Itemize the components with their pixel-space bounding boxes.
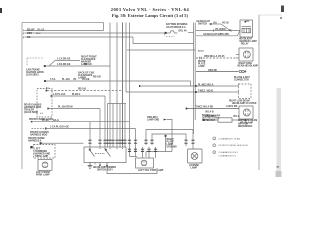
left park lamp symbol: [42, 162, 48, 168]
svg-text:RD-GN: RD-GN: [93, 77, 101, 79]
right margin shading: [277, 88, 282, 177]
connector on wire x113: [111, 140, 114, 143]
page edge artifact top-left: [0, 8, 2, 13]
ground run wire: [107, 166, 157, 174]
svg-text:LAMP: LAMP: [81, 63, 88, 66]
svg-text:GROUND: GROUND: [167, 146, 178, 148]
svg-text:NBR-MC2: NBR-MC2: [205, 116, 216, 118]
connector row2 x142.5: [141, 149, 144, 151]
off-page arrow W3: [23, 36, 25, 37]
svg-text:PL-10A: PL-10A: [62, 78, 70, 81]
wire y86 left tick: [139, 85, 140, 87]
tail lamp bottom run: [146, 151, 172, 153]
relay contact block: [242, 28, 251, 33]
svg-text:DA-G: DA-G: [53, 119, 59, 122]
svg-text:OBS: OBS: [27, 33, 32, 35]
verticals continue below connector row: [89, 145, 91, 147]
relay inner line: [242, 25, 252, 27]
svg-text:HEADLIGHT SW: HEADLIGHT SW: [204, 33, 223, 36]
svg-text:NOTES REF: NOTES REF: [202, 120, 216, 122]
pin tick b: [230, 29, 232, 31]
license lamp box: [188, 149, 203, 163]
svg-text:T-MC2: T-MC2: [198, 90, 206, 92]
svg-text:2003 Volvo VNL - Series - VNL-: 2003 Volvo VNL - Series - VNL-64: [111, 7, 190, 12]
svg-text:VO: VO: [73, 79, 77, 81]
DRL module wire hump: [167, 31, 178, 33]
wire y121.7: [34, 121, 130, 123]
svg-text:SWITCH: SWITCH: [198, 23, 207, 25]
left park lamp box: [38, 160, 52, 171]
tail lamp feed arrow wire: [167, 120, 173, 152]
short verticals second row: [143, 147, 156, 158]
left dashed connector box: [34, 145, 56, 159]
svg-text:PL-10A RD-W: PL-10A RD-W: [58, 105, 74, 108]
svg-text:RELAY: RELAY: [241, 42, 249, 45]
lamp1 entry stub: [236, 54, 239, 56]
svg-text:GE: GE: [27, 37, 31, 39]
relay box U1: [240, 20, 253, 37]
svg-text:Fig. 58: Exterior Lamps Circui: Fig. 58: Exterior Lamps Circuit (3 of 5): [112, 13, 189, 18]
connector on wire x120: [118, 140, 121, 143]
wire y91.8 terminal: [195, 91, 197, 93]
legend circle 3: [213, 151, 216, 154]
frame right border: [258, 15, 260, 170]
trailer dashed connector box: [37, 89, 52, 118]
off-page arrow W2: [23, 32, 25, 33]
dashed wire to lamp1: [196, 57, 236, 59]
corner x135.5 down: [135, 129, 137, 157]
wire W1: [25, 30, 104, 32]
DRL module terminal: [165, 32, 167, 34]
corner x100 down: [99, 109, 101, 146]
svg-text:T-MC2 VIO A RD: T-MC2 VIO A RD: [196, 106, 214, 109]
svg-text:REFERENCE: REFERENCE: [238, 126, 253, 128]
connector on wire x135.5: [134, 140, 137, 143]
svg-text:DETROIT DIESEL SER 60-84: DETROIT DIESEL SER 60-84: [219, 145, 249, 147]
connector on wire x90: [88, 140, 91, 143]
frame top right stub: [259, 14, 282, 16]
wire into dimmer area y143.2: [41, 142, 84, 144]
wire W3 drop: [132, 37, 134, 44]
page edge artifact top-right: [281, 6, 284, 13]
dashed wire y90.5: [47, 90, 123, 92]
svg-text:VIO-A: VIO-A: [207, 83, 214, 86]
legend: [213, 137, 216, 154]
dashed wire start mark: [46, 90, 48, 92]
nested corner wire y134: [152, 134, 186, 145]
connector on wire x146: [144, 140, 147, 143]
LT lamp symbol: [141, 160, 147, 166]
svg-text:8: 8: [23, 34, 24, 36]
parallel wire y86: [140, 85, 191, 87]
connector on wire x107.5: [106, 140, 109, 143]
svg-text:1: 1: [214, 138, 215, 140]
svg-text:CLEARANCE L PLAN: CLEARANCE L PLAN: [219, 137, 241, 140]
legend circle 1: [213, 137, 216, 140]
wire y108.5 to lamp3: [187, 108, 239, 110]
svg-text:VO-35B: VO-35B: [221, 34, 230, 36]
svg-text:W-GN 2: W-GN 2: [72, 94, 81, 96]
lamp box 3 left low beam: [239, 106, 253, 119]
left dashed partial box: [27, 34, 175, 66]
connector on wire x100: [98, 140, 101, 143]
connector on wire x125: [123, 140, 126, 143]
corner x105 down: [104, 96, 106, 145]
long wire y81 cab clearance: [45, 80, 191, 82]
svg-text:LAMP: LAMP: [198, 65, 205, 68]
pin dot below: [95, 163, 107, 166]
svg-text:(CHAS SIDE): (CHAS SIDE): [24, 111, 38, 114]
relay top terminal: [244, 21, 246, 23]
svg-text:1-CA DR-GE: 1-CA DR-GE: [57, 58, 71, 61]
connector row2 x149: [147, 149, 150, 151]
svg-text:HARNESS A: HARNESS A: [28, 140, 42, 143]
vertical trunk x110: [109, 23, 111, 146]
svg-text:DAYTIME RUNNING: DAYTIME RUNNING: [166, 23, 188, 26]
ground below dimmer box: [88, 163, 93, 169]
svg-text:BEAM HEADLAMP: BEAM HEADLAMP: [238, 64, 259, 67]
svg-text:(CAB SIDE): (CAB SIDE): [26, 73, 39, 76]
wire y128.5: [46, 128, 136, 130]
bottom-right tiny mark: [277, 166, 280, 168]
svg-text:T-CA: T-CA: [50, 78, 56, 81]
jog wire y103.5: [108, 103, 127, 105]
marker lamp wire y60.5: [55, 60, 80, 62]
license lamp drop: [192, 141, 194, 149]
dimmer switch box: [84, 147, 126, 163]
svg-text:VIO A-B: VIO A-B: [205, 110, 214, 113]
svg-text:1-R PL-10A: 1-R PL-10A: [53, 93, 66, 96]
switch riser diagonal: [238, 31, 241, 36]
headlight switch feed wire: [211, 23, 221, 25]
dashed box terminal: [30, 146, 32, 148]
y128.5 junction tick: [45, 127, 46, 129]
junction dot: [165, 135, 167, 137]
pin dots in dimmer box: [89, 148, 123, 149]
lamp symbol 1: [243, 51, 250, 58]
riser diagonal: [49, 61, 55, 67]
lamp symbol 3: [243, 109, 250, 116]
junction drop x165.5: [165, 137, 167, 152]
svg-text:PL-8A: PL-8A: [42, 119, 49, 122]
wire y120 start dot: [203, 119, 205, 121]
DRL module dashed outline: [165, 34, 175, 37]
wire y108.5 left: [48, 108, 100, 110]
right margin blob bottom: [276, 171, 282, 177]
svg-text:CLEARANCE KIT: CLEARANCE KIT: [219, 155, 237, 158]
svg-text:LEFT TAIL STOP LAMP: LEFT TAIL STOP LAMP: [138, 169, 164, 172]
switch contact A: [90, 151, 95, 157]
svg-text:OBS MC: OBS MC: [208, 70, 218, 72]
wire y121.7 arrow: [31, 121, 34, 123]
vertical x120: [119, 104, 121, 146]
connector on wire x129.5: [128, 140, 131, 143]
dark terminals and arrows: [23, 21, 249, 149]
pin tick a: [213, 29, 215, 31]
wire y85.8 right label tick: [195, 85, 197, 87]
wire y85.8 terminal: [44, 80, 46, 82]
svg-text:VIO-A: VIO-A: [233, 115, 240, 118]
wire y86 to right lamp: [191, 85, 240, 87]
svg-text:9: 9: [23, 38, 24, 40]
connector row2 x129.5: [128, 149, 131, 151]
off-page arrow W1: [23, 30, 25, 31]
svg-text:VO-GE: VO-GE: [82, 79, 90, 81]
svg-text:RD-WT: RD-WT: [27, 30, 35, 32]
svg-text:CLEARANCE DIS 5: CLEARANCE DIS 5: [219, 151, 239, 154]
wire y96 tick: [51, 95, 52, 97]
svg-text:VO: VO: [223, 29, 227, 31]
connector on wire x105: [103, 140, 106, 143]
jog from top line to wire W1: [103, 23, 105, 31]
frame top line: [22, 22, 104, 24]
vertical trunk x129.5: [129, 23, 131, 157]
svg-text:CONNECTOR: CONNECTOR: [234, 80, 249, 82]
wire y96: [51, 95, 105, 97]
svg-text:VIO-B: VIO-B: [207, 90, 214, 92]
svg-text:2: 2: [214, 145, 215, 147]
wire y120 right with connector box: [204, 119, 247, 121]
svg-text:PL-2A: PL-2A: [38, 29, 45, 32]
switch wire y30.5: [196, 30, 240, 32]
svg-text:TURN LAMP: TURN LAMP: [35, 155, 49, 158]
svg-text:OBS MCA-A VO-35: OBS MCA-A VO-35: [204, 55, 225, 58]
connector on wire x110: [108, 140, 111, 143]
connector on wire x186: [184, 140, 187, 143]
vertical x125: [124, 104, 126, 146]
license lamp symbol: [191, 153, 198, 160]
frame left border: [21, 23, 23, 170]
connector on wire x122.5: [121, 140, 124, 143]
wire y108.5 tick: [47, 108, 48, 110]
svg-text:SWITCH ASSY: SWITCH ASSY: [97, 168, 113, 171]
connector tick rows: [88, 140, 194, 151]
connector on wire x117: [115, 140, 118, 143]
svg-text:RD-106: RD-106: [78, 88, 87, 90]
svg-text:3: 3: [214, 152, 215, 154]
connector row2 x135.5: [134, 149, 137, 151]
wire y92 to right lamp: [126, 91, 239, 93]
svg-text:PARK LAMP: PARK LAMP: [36, 173, 50, 176]
svg-text:HARNESS MOD: HARNESS MOD: [30, 134, 48, 137]
svg-text:1-CA PL-8 DA-GE: 1-CA PL-8 DA-GE: [50, 126, 69, 129]
svg-text:B2-A1: B2-A1: [198, 49, 205, 52]
svg-text:1-DA DR-GE: 1-DA DR-GE: [57, 63, 71, 66]
svg-text:PL-MC2: PL-MC2: [198, 84, 207, 86]
vertical trunk x122.5: [122, 23, 124, 146]
connector ticks on dashed wire: [200, 57, 202, 59]
vertical x107.5: [107, 104, 109, 146]
connector row2 x155.5: [154, 149, 157, 151]
switch contact dot: [229, 30, 230, 31]
connector on wire x193: [191, 140, 194, 143]
svg-text:DRL 4A: DRL 4A: [179, 30, 188, 33]
module double vertical b: [194, 23, 196, 121]
nested corner wire y129.5: [146, 130, 193, 146]
svg-text:HEADLAMP CLUSTER: HEADLAMP CLUSTER: [232, 102, 257, 105]
wire y128.5 dashed lead: [32, 128, 47, 130]
lamp box 1 right high beam: [239, 48, 253, 61]
switch contact B: [106, 151, 111, 157]
svg-text:A-MC2 RD: A-MC2 RD: [226, 105, 238, 108]
module double vertical a: [193, 23, 195, 135]
switch lever diagonal: [221, 24, 229, 30]
wire y108.5 left terminal: [186, 108, 188, 110]
vertical trunk x117: [116, 23, 118, 146]
DRL module wire cont: [188, 32, 194, 34]
svg-text:LAMP GND: LAMP GND: [147, 119, 160, 122]
gang dashed link: [95, 153, 105, 155]
LT lamp feed: [130, 156, 138, 158]
legend circle 2: [213, 144, 216, 147]
page edge mark right: [280, 17, 282, 19]
svg-text:VO-35: VO-35: [222, 22, 229, 24]
connector box on y120: [218, 118, 232, 122]
svg-text:DA: DA: [214, 21, 218, 24]
wire y143.2 terminal: [40, 142, 42, 144]
LT tail lamp box: [136, 158, 154, 168]
svg-text:7: 7: [23, 30, 24, 32]
wire branch y50 to module column: [127, 49, 195, 51]
switch wire y35.8: [196, 35, 238, 37]
inline connector y71.5: [196, 71, 239, 73]
wire y120 end dot: [245, 119, 247, 121]
wire W3: [25, 36, 133, 38]
connector on wire x152: [150, 140, 153, 143]
vertical x113: [112, 104, 114, 146]
wire W2: [25, 32, 165, 34]
svg-text:LIGHT MODULE A: LIGHT MODULE A: [166, 26, 186, 29]
wire branch y44 to module column: [133, 43, 194, 45]
wire y66 terminal: [44, 65, 46, 67]
corner x90 down: [89, 122, 91, 145]
svg-text:LAMP: LAMP: [191, 166, 198, 169]
tail feed arrow: [164, 119, 167, 121]
wire y66: [45, 65, 110, 67]
headlight switch arrow: [209, 23, 212, 25]
corner x190.5 down: [190, 81, 192, 86]
vertical trunk x126: [125, 23, 127, 93]
connector box 2 dashed: [239, 84, 252, 99]
